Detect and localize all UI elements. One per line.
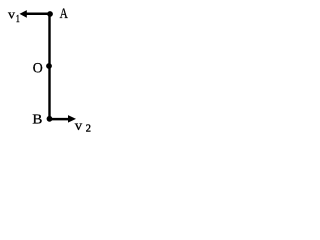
svg-text:O: O bbox=[33, 60, 43, 76]
svg-text:A: A bbox=[60, 6, 69, 22]
svg-text:B: B bbox=[32, 111, 42, 126]
svg-text:1: 1 bbox=[16, 13, 20, 25]
svg-text:v: v bbox=[75, 118, 83, 133]
svg-text:v: v bbox=[8, 6, 16, 21]
svg-text:2: 2 bbox=[86, 122, 91, 134]
